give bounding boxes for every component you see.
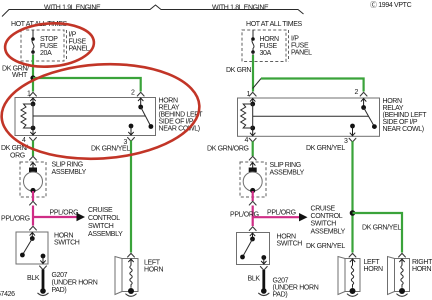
connector at slip ring xyxy=(249,156,256,160)
arrowhead to cruise control xyxy=(77,213,86,221)
svg-text:FUSE: FUSE xyxy=(291,43,309,50)
svg-text:PAD): PAD) xyxy=(52,287,67,294)
wire PPL/ORG out of slip ring xyxy=(252,191,254,201)
svg-text:SLIP RING: SLIP RING xyxy=(270,162,301,169)
svg-text:PPL/ORG: PPL/ORG xyxy=(50,210,79,217)
svg-text:SLIP RING: SLIP RING xyxy=(52,162,83,169)
svg-text:PAD): PAD) xyxy=(273,292,288,299)
relay coil xyxy=(31,102,36,107)
svg-text:CONTROL: CONTROL xyxy=(88,215,120,222)
connector at left horn xyxy=(128,253,135,257)
svg-text:G207: G207 xyxy=(273,278,289,285)
connector at right horn xyxy=(399,253,406,257)
horn switch blade xyxy=(243,239,253,257)
wire PPL/ORG to horn switch xyxy=(252,206,254,227)
svg-text:ASSEMBLY: ASSEMBLY xyxy=(52,169,87,176)
svg-text:HORN: HORN xyxy=(54,233,74,240)
connector on PPL/ORG xyxy=(249,201,256,205)
connector at relay pin 4 xyxy=(30,138,37,142)
svg-text:DK GRN/YEL: DK GRN/YEL xyxy=(306,145,345,152)
svg-text:RELAY: RELAY xyxy=(159,105,180,112)
svg-text:57426: 57426 xyxy=(0,291,15,298)
connector at horn switch xyxy=(30,226,37,230)
svg-text:4: 4 xyxy=(245,137,249,144)
left horn H2 xyxy=(345,259,360,292)
relay pin 4 terminal arrow xyxy=(250,128,255,136)
horn relay K2 box (1.8L) xyxy=(238,98,380,136)
connector below horn switch xyxy=(260,267,267,271)
slip ring terminal arrow xyxy=(30,163,35,169)
svg-text:CONTROL: CONTROL xyxy=(311,213,343,220)
relay pin 3 contact arrow xyxy=(129,124,134,129)
connector at horn switch xyxy=(249,227,256,231)
connector on PPL/ORG xyxy=(30,201,37,205)
relay switch pivot xyxy=(138,98,143,107)
slip ring brush block xyxy=(29,168,37,173)
red circle around stop fuse xyxy=(4,20,96,69)
svg-text:DK GRN/YEL: DK GRN/YEL xyxy=(362,225,401,232)
fuse F1 STOP FUSE 20A xyxy=(32,30,34,39)
svg-text:CRUISE: CRUISE xyxy=(88,207,113,214)
svg-text:PANEL: PANEL xyxy=(291,50,312,57)
svg-text:HORN: HORN xyxy=(144,267,164,274)
horn relay K1 box (1.9L) xyxy=(15,98,156,136)
wire BLK to ground xyxy=(262,270,265,289)
svg-text:BLK: BLK xyxy=(27,275,40,282)
svg-text:HORN: HORN xyxy=(260,36,280,43)
connector at relay pin 2 xyxy=(137,92,144,96)
connector at relay pin 3 xyxy=(349,138,356,142)
svg-text:(UNDER HORN: (UNDER HORN xyxy=(273,285,319,292)
slip ring assembly dashed box xyxy=(20,162,46,197)
connector at relay pin 4 xyxy=(249,138,256,142)
svg-text:FUSE: FUSE xyxy=(40,43,58,50)
svg-text:NEAR COWL): NEAR COWL) xyxy=(383,126,424,133)
slip ring ring xyxy=(243,172,262,191)
svg-text:STOP: STOP xyxy=(40,36,58,43)
horn switch blade xyxy=(22,239,32,256)
svg-text:ORG: ORG xyxy=(10,153,25,160)
svg-text:SWITCH: SWITCH xyxy=(277,241,303,248)
horn switch SW2 box xyxy=(237,233,270,265)
relay coil xyxy=(250,102,255,107)
wire riser to relay pin 2 xyxy=(253,79,261,89)
ground G207 xyxy=(40,288,46,294)
svg-text:ASSEMBLY: ASSEMBLY xyxy=(311,229,346,236)
svg-text:SIDE OF I/P: SIDE OF I/P xyxy=(383,119,418,126)
relay pin 1 terminal arrow xyxy=(30,98,35,104)
fuse F2 HORN FUSE 30A xyxy=(252,30,254,39)
horn switch terminal arrow xyxy=(250,233,255,240)
right horn H3 xyxy=(395,259,410,292)
wire branch to relay pin 2 xyxy=(33,78,141,92)
slip ring ring xyxy=(24,172,43,191)
svg-text:LEFT: LEFT xyxy=(364,259,381,266)
svg-text:PPL/ORG: PPL/ORG xyxy=(1,216,30,223)
svg-text:3: 3 xyxy=(344,138,348,145)
I/P fuse panel dashed box xyxy=(242,30,286,62)
node junction on DK GRN/WHT xyxy=(30,75,35,80)
svg-text:WITH 1.8L ENGINE: WITH 1.8L ENGINE xyxy=(212,5,269,12)
svg-text:2: 2 xyxy=(131,90,135,97)
svg-text:(UNDER HORN: (UNDER HORN xyxy=(52,280,98,287)
wire DK GRN/ORG to slip ring xyxy=(252,141,254,156)
connector at relay pin 3 xyxy=(128,138,135,142)
wire PPL/ORG branch to cruise control xyxy=(253,216,301,218)
wire DK GRN from fuse xyxy=(252,55,254,92)
svg-text:Ⓒ 1994 VPTC: Ⓒ 1994 VPTC xyxy=(370,1,412,9)
connector at relay pin 2 xyxy=(360,92,367,96)
svg-text:HORN: HORN xyxy=(383,98,403,105)
svg-text:I/P: I/P xyxy=(291,36,299,43)
wire branch to right horn xyxy=(353,213,403,253)
arrowhead to cruise control xyxy=(299,213,308,221)
svg-text:HORN: HORN xyxy=(277,234,297,241)
wire PPL/ORG to horn switch xyxy=(32,206,34,226)
svg-text:WHT: WHT xyxy=(12,72,28,79)
horn switch terminal arrow xyxy=(30,233,35,240)
relay armature link line xyxy=(253,115,369,117)
svg-text:1: 1 xyxy=(27,91,31,98)
header bracket line xyxy=(2,5,304,17)
relay pin 4 terminal arrow xyxy=(30,128,35,135)
wire DK GRN/YEL down xyxy=(351,141,353,252)
svg-text:WITH 1.9L ENGINE: WITH 1.9L ENGINE xyxy=(44,5,101,12)
svg-text:20A: 20A xyxy=(40,50,52,57)
horn switch output contact xyxy=(41,254,46,259)
connector at relay pin 1 xyxy=(30,92,37,96)
relay switch pivot xyxy=(361,99,366,108)
svg-text:I/P: I/P xyxy=(69,32,77,39)
svg-text:NEAR COWL): NEAR COWL) xyxy=(159,126,200,133)
svg-text:DK GRN/ORG: DK GRN/ORG xyxy=(207,146,249,153)
svg-text:SWITCH: SWITCH xyxy=(54,240,80,247)
svg-text:ASSEMBLY: ASSEMBLY xyxy=(270,170,305,177)
wire BLK to ground xyxy=(42,270,45,290)
red circle around horn relay xyxy=(0,59,202,165)
svg-text:BLK: BLK xyxy=(248,276,261,283)
wire DK GRN/ORG to slip ring xyxy=(32,141,34,157)
wire PPL/ORG out of slip ring xyxy=(32,191,34,201)
svg-text:HORN: HORN xyxy=(364,266,384,273)
svg-text:ASSEMBLY: ASSEMBLY xyxy=(88,231,123,238)
svg-text:LEFT: LEFT xyxy=(144,260,161,267)
relay pin 3 contact arrow xyxy=(350,124,355,129)
wire DK GRN/WHT from fuse xyxy=(32,55,34,92)
I/P fuse panel dashed box xyxy=(21,30,64,61)
slip ring assembly dashed box xyxy=(240,162,266,197)
svg-text:FUSE: FUSE xyxy=(69,39,87,46)
node junction on DK GRN/YEL xyxy=(350,210,356,216)
relay switch blade xyxy=(141,107,151,127)
connector at slip ring xyxy=(30,156,37,160)
wire PPL/ORG branch to cruise control xyxy=(33,216,78,218)
slip ring terminal arrow xyxy=(250,163,255,169)
svg-text:SWITCH: SWITCH xyxy=(311,221,337,228)
svg-text:(BEHIND LEFT: (BEHIND LEFT xyxy=(383,112,428,119)
svg-text:FUSE: FUSE xyxy=(260,43,278,50)
relay armature link line xyxy=(33,115,146,117)
svg-text:SWITCH: SWITCH xyxy=(88,223,114,230)
svg-text:RELAY: RELAY xyxy=(383,105,404,112)
relay pin 1 terminal arrow xyxy=(250,99,255,105)
svg-text:DK GRN: DK GRN xyxy=(226,67,251,74)
fuse panel separator xyxy=(288,30,290,62)
relay switch blade xyxy=(364,108,375,127)
svg-text:PANEL: PANEL xyxy=(69,46,90,53)
wire DK GRN/YEL to left horn xyxy=(130,141,132,253)
svg-text:DK GRN/YEL: DK GRN/YEL xyxy=(306,243,345,250)
svg-text:HORN: HORN xyxy=(412,266,432,273)
svg-text:PPL/ORG: PPL/ORG xyxy=(267,210,296,217)
svg-text:2: 2 xyxy=(355,89,359,96)
svg-text:RIGHT: RIGHT xyxy=(412,259,432,266)
svg-text:G207: G207 xyxy=(52,272,68,279)
horn switch SW1 box xyxy=(16,232,48,264)
svg-text:CRUISE: CRUISE xyxy=(311,206,336,213)
svg-text:30A: 30A xyxy=(260,50,272,57)
connector at left horn (1.8L) xyxy=(349,253,356,257)
svg-text:1: 1 xyxy=(247,91,251,98)
svg-text:HORN: HORN xyxy=(159,98,179,105)
svg-text:HOT AT ALL TIMES: HOT AT ALL TIMES xyxy=(246,21,303,28)
ground G207 xyxy=(261,288,267,294)
connector at relay pin 1 xyxy=(249,92,256,96)
fuse panel separator xyxy=(66,30,68,61)
connector below horn switch xyxy=(40,266,47,270)
horn switch output contact xyxy=(261,255,266,260)
left horn H1 xyxy=(122,259,138,292)
svg-text:SIDE OF I/P: SIDE OF I/P xyxy=(159,119,194,126)
svg-text:DK GRN/YEL: DK GRN/YEL xyxy=(91,146,130,153)
slip ring brush block xyxy=(249,168,257,173)
